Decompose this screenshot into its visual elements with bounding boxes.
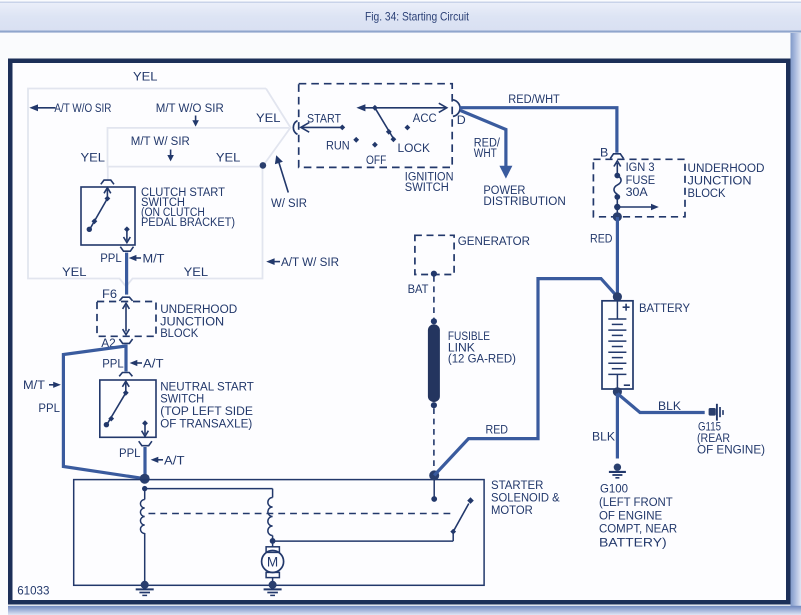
svg-text:ACC: ACC <box>413 111 437 125</box>
battery B+ box <box>602 301 633 389</box>
svg-text:GENERATOR: GENERATOR <box>458 234 530 248</box>
connector B <box>610 154 623 159</box>
arrow A/T W/ SIR <box>266 255 339 269</box>
wire RED feed stub into solenoid contact <box>431 480 437 502</box>
label M/T W/O SIR with down arrow <box>156 101 224 126</box>
svg-text:OF ENGINE: OF ENGINE <box>599 508 662 522</box>
arrow W/ SIR pointer <box>271 155 307 210</box>
label IGN 3 FUSE 30A <box>626 160 656 199</box>
ignition wiper wire to terminal D <box>356 103 446 112</box>
node battery positive junction dot <box>613 292 622 301</box>
svg-text:RED: RED <box>486 422 509 436</box>
label YEL row2 right <box>216 150 241 164</box>
label RED/WHT <box>508 92 560 106</box>
wire PPL clutch switch to F6 <box>125 253 128 295</box>
label ignition switch <box>405 169 454 194</box>
svg-text:BLOCK: BLOCK <box>688 186 727 200</box>
svg-text:G100: G100 <box>600 481 628 495</box>
node solenoid feed dot <box>142 486 147 491</box>
node PPL/MT junction dot at starter <box>140 474 150 484</box>
label M/T W/ SIR with down arrow <box>131 134 190 161</box>
label RED (battery feed) <box>590 231 613 245</box>
label starter solenoid & motor <box>491 478 560 517</box>
svg-text:SWITCH: SWITCH <box>405 180 449 194</box>
svg-text:OF TRANSAXLE): OF TRANSAXLE) <box>160 417 252 431</box>
wire generator to fusible link (dashed) <box>433 276 435 319</box>
svg-text:A/T: A/T <box>143 357 164 371</box>
node fusible link top dot <box>431 318 437 324</box>
label RED (starter feed) <box>486 422 509 436</box>
ground at starter motor <box>264 581 282 596</box>
starter motor M1 <box>262 541 284 583</box>
label clutch start switch <box>141 185 235 229</box>
underhood junction block (left) dashed box <box>97 302 156 337</box>
label PPL (clutch) <box>100 251 122 265</box>
svg-text:LOCK: LOCK <box>398 141 431 155</box>
arrow A/T pointer (A2) <box>130 357 164 371</box>
wire fusible link to starter (dashed) <box>433 408 435 471</box>
clutch start switch contacts and arm <box>87 196 111 232</box>
svg-text:BLK: BLK <box>658 399 682 413</box>
wire RED branch to starter <box>434 279 617 476</box>
wire YEL highlight M/T W/ SIR branch <box>108 128 290 167</box>
bottom shadow <box>8 606 801 615</box>
svg-text:RUN: RUN <box>326 139 350 153</box>
wire solenoid feed horizontal <box>145 488 273 490</box>
wire RED/WHT branch to power distribution <box>461 111 506 167</box>
battery plus symbol <box>623 304 630 311</box>
label BLK (G115) <box>658 399 682 413</box>
svg-text:OFF: OFF <box>366 153 387 167</box>
clutch start switch S1 box <box>81 187 135 245</box>
terminal D connector arc <box>453 100 466 127</box>
ignition switch wiper arm <box>372 105 396 142</box>
svg-text:COMPT, NEAR: COMPT, NEAR <box>599 521 677 535</box>
contact ACC <box>405 111 437 131</box>
label B <box>600 146 608 160</box>
svg-text:BATTERY: BATTERY <box>639 301 690 315</box>
solenoid contact switch <box>273 497 474 541</box>
label underhood junction block (left) <box>160 302 237 340</box>
svg-text:M/T: M/T <box>23 378 45 392</box>
battery minus symbol <box>624 384 630 386</box>
svg-text:A/T W/O SIR: A/T W/O SIR <box>54 101 111 115</box>
connector F6 <box>119 297 132 301</box>
label START <box>307 112 341 126</box>
arrow M/T pointer (left rail) <box>23 378 61 392</box>
svg-text:PPL: PPL <box>119 446 141 460</box>
svg-text:D: D <box>457 113 466 127</box>
label PPL (left rail) <box>38 401 60 415</box>
terminal A wire with arrow and START contact <box>301 123 345 133</box>
label YEL row3 left <box>62 265 87 279</box>
svg-text:F6: F6 <box>102 287 117 301</box>
label A2 <box>101 336 116 350</box>
connector A2 <box>119 339 132 343</box>
svg-text:YEL: YEL <box>184 265 209 279</box>
generator G1 dashed box <box>415 235 454 274</box>
label RED/WHT vertical <box>474 135 501 160</box>
underhood junction block (right) dashed box <box>593 159 685 217</box>
svg-text:BAT: BAT <box>408 282 429 296</box>
svg-text:(12 GA-RED): (12 GA-RED) <box>448 351 516 365</box>
terminal A connector arc <box>293 121 297 135</box>
connector above clutch start switch <box>101 180 114 184</box>
ground at solenoid coil <box>136 581 154 596</box>
label power distribution <box>483 183 565 208</box>
svg-text:M: M <box>267 554 278 569</box>
label YEL near terminal A <box>256 111 281 125</box>
node battery negative junction dot <box>613 387 622 396</box>
node junction block output dot <box>613 212 622 221</box>
contact OFF <box>366 142 387 167</box>
contact RUN <box>326 137 359 153</box>
wire PPL A2 to neutral start switch <box>124 345 127 372</box>
solenoid hold-in coil L2 <box>268 489 273 539</box>
fuse tap wire with arrow <box>614 204 659 210</box>
svg-text:DISTRIBUTION: DISTRIBUTION <box>483 194 565 208</box>
label YEL row3 right <box>184 265 209 279</box>
arrow A/T pointer (NSS) <box>151 453 185 467</box>
ground G115 symbol <box>709 404 723 421</box>
label neutral start switch <box>160 379 254 430</box>
neutral start switch terminal arrow (bottom right) <box>142 420 149 436</box>
battery internal plates <box>608 301 626 389</box>
label PPL (A2) <box>102 357 124 371</box>
label YEL row2 left <box>81 150 106 164</box>
solenoid pull-in coil L1 <box>140 489 144 584</box>
mechanical linkage dashed line <box>149 513 454 515</box>
node fusible link bottom dot <box>431 402 437 408</box>
connector below neutral start switch <box>139 441 152 446</box>
label BATTERY <box>639 301 690 315</box>
clutch start switch terminal arrow (top) <box>104 188 111 199</box>
junction block internal wire with arrows <box>123 303 130 334</box>
svg-text:(LEFT FRONT: (LEFT FRONT <box>599 495 673 509</box>
svg-text:BLK: BLK <box>592 429 616 443</box>
svg-text:B: B <box>600 146 608 160</box>
right shadow <box>791 33 801 606</box>
label F6 <box>102 287 117 301</box>
wire RED/WHT from D to junction block <box>460 108 617 153</box>
svg-text:IGN 3: IGN 3 <box>626 160 655 174</box>
svg-text:M/T W/O SIR: M/T W/O SIR <box>156 101 224 115</box>
neutral start switch contacts and arm <box>104 390 129 428</box>
svg-text:WHT: WHT <box>474 146 497 160</box>
svg-text:MOTOR: MOTOR <box>491 503 533 517</box>
clutch start switch terminal arrow (bottom right) <box>124 226 131 242</box>
connector below clutch start switch <box>120 247 133 252</box>
wire M/T left rail (A2 to starter junction) <box>63 346 144 479</box>
svg-text:BLOCK: BLOCK <box>160 326 199 340</box>
fusible link (12 GA-RED) <box>428 324 440 402</box>
svg-text:RED/WHT: RED/WHT <box>508 92 560 106</box>
node W/SIR junction dot <box>260 162 267 169</box>
label G115 (REAR OF ENGINE) <box>697 419 765 456</box>
svg-text:YEL: YEL <box>62 265 87 279</box>
arrow M/T pointer (clutch) <box>129 252 165 266</box>
svg-text:A/T W/ SIR: A/T W/ SIR <box>281 255 339 269</box>
neutral start switch terminal arrow (top) <box>122 381 129 393</box>
svg-text:A/T: A/T <box>164 453 185 467</box>
node coil/motor junction dot <box>270 538 276 544</box>
starter solenoid and motor box <box>74 480 484 586</box>
svg-text:RED: RED <box>590 231 613 245</box>
wire RED junction block to battery <box>616 217 619 297</box>
svg-text:30A: 30A <box>626 185 649 199</box>
svg-text:BATTERY): BATTERY) <box>599 535 667 549</box>
wire YEL highlight stub to clutch switch <box>107 167 109 180</box>
arrow power distribution <box>499 166 512 179</box>
ignition switch dashed box <box>299 84 453 168</box>
label BLK (G100) <box>592 429 616 443</box>
label underhood junction block (right) <box>688 161 765 200</box>
svg-text:START: START <box>307 112 341 126</box>
label G100 (LEFT FRONT OF ENGINE COMPT, NEAR BATTERY) <box>599 481 677 549</box>
label PPL (NSS) <box>119 446 141 460</box>
label BAT <box>408 282 429 296</box>
title bar <box>0 2 801 33</box>
neutral start switch S2 box <box>100 380 156 437</box>
arrow A/T W/O SIR <box>29 101 111 115</box>
svg-text:W/ SIR: W/ SIR <box>271 196 307 210</box>
svg-text:M/T: M/T <box>143 252 165 266</box>
label LOCK <box>398 141 431 155</box>
label GENERATOR <box>458 234 530 248</box>
ground G100 symbol <box>609 464 626 478</box>
label FUSIBLE LINK (12 GA-RED) <box>448 329 516 365</box>
label 61033 <box>17 583 50 597</box>
wire BLK battery to G115 <box>617 394 704 413</box>
label YEL top <box>133 70 158 84</box>
svg-text:YEL: YEL <box>256 111 281 125</box>
wire PPL NSS to starter junction <box>143 447 146 477</box>
svg-text:PPL: PPL <box>38 401 60 415</box>
svg-text:YEL: YEL <box>216 150 241 164</box>
node generator BAT terminal dot <box>431 271 437 277</box>
svg-text:Fig. 34: Starting Circuit: Fig. 34: Starting Circuit <box>365 10 470 24</box>
fuse F1 IGN 3 30A <box>614 161 621 217</box>
node RED feed dot at starter box <box>429 470 439 480</box>
svg-text:61033: 61033 <box>17 583 50 597</box>
svg-text:PPL: PPL <box>100 251 122 265</box>
svg-text:PEDAL BRACKET): PEDAL BRACKET) <box>141 215 235 229</box>
svg-text:OF ENGINE): OF ENGINE) <box>697 442 765 456</box>
svg-text:PPL: PPL <box>102 357 124 371</box>
svg-text:YEL: YEL <box>133 70 158 84</box>
wire BLK battery to G100 <box>616 394 619 459</box>
connector above neutral start switch <box>119 373 132 377</box>
svg-text:YEL: YEL <box>81 150 106 164</box>
svg-text:M/T W/ SIR: M/T W/ SIR <box>131 134 190 148</box>
wire YEL highlight main loop <box>28 89 291 287</box>
